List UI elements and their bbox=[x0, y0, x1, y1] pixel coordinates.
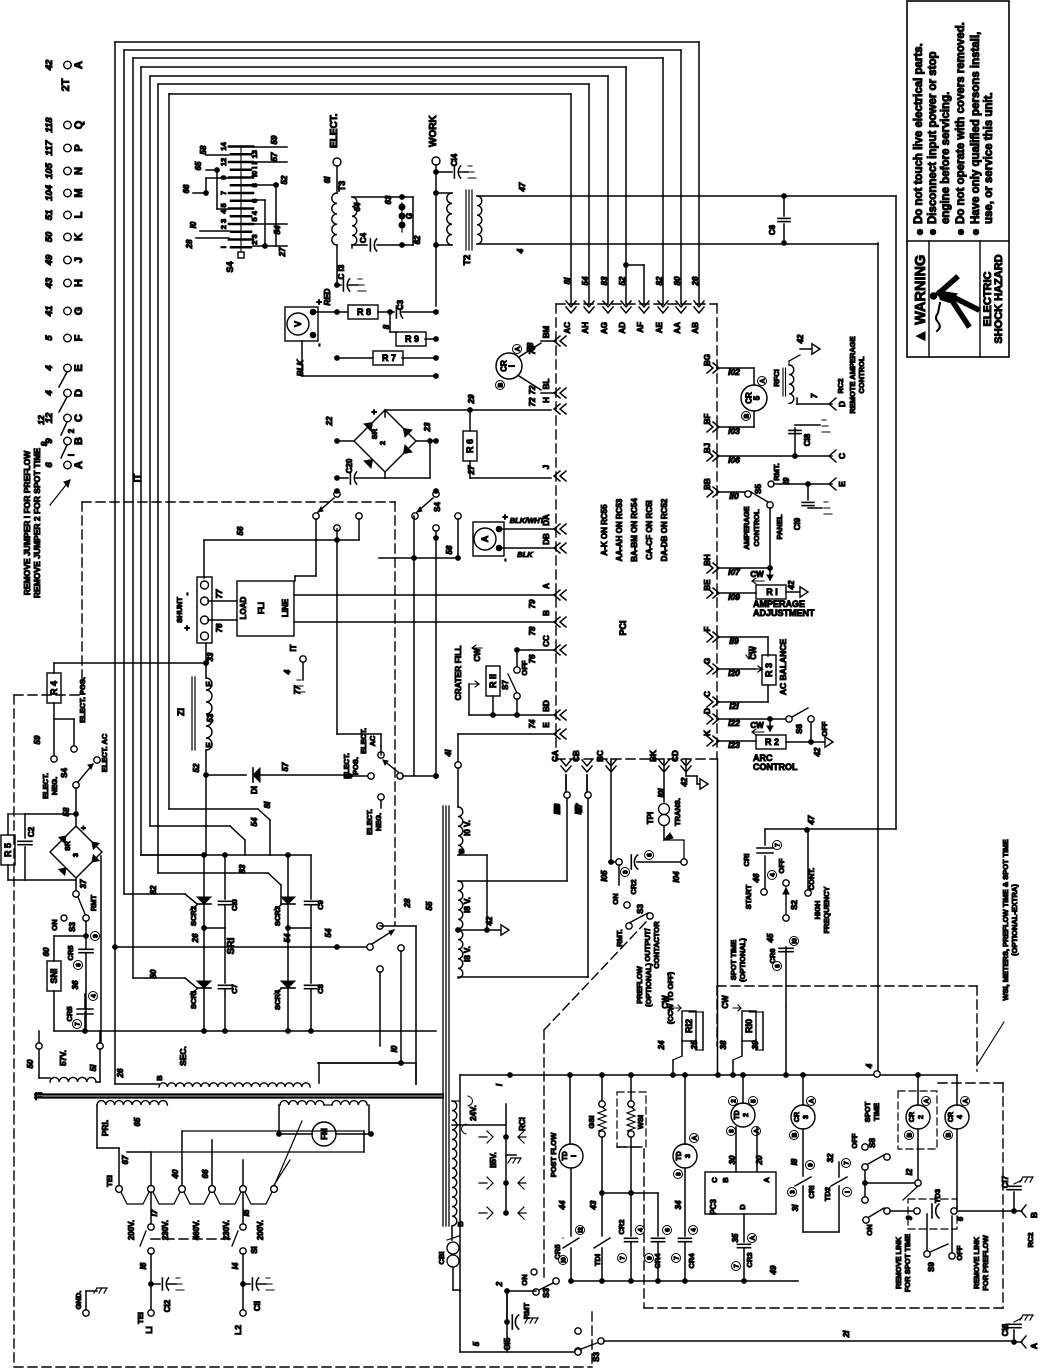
svg-text:L: L bbox=[73, 211, 85, 218]
svg-text:L2: L2 bbox=[233, 1325, 243, 1335]
svg-text:CA: CA bbox=[551, 750, 560, 762]
svg-text:R 3: R 3 bbox=[764, 663, 774, 677]
svg-text:74: 74 bbox=[528, 719, 537, 728]
svg-text:CW: CW bbox=[750, 570, 764, 579]
svg-text:64: 64 bbox=[353, 202, 362, 211]
svg-text:PCI: PCI bbox=[618, 620, 628, 635]
svg-text:B: B bbox=[744, 413, 751, 418]
svg-text:9: 9 bbox=[623, 870, 630, 874]
svg-text:2I: 2I bbox=[842, 1330, 851, 1338]
svg-text:12: 12 bbox=[36, 415, 46, 425]
svg-text:66: 66 bbox=[182, 184, 191, 193]
svg-text:A: A bbox=[73, 461, 85, 469]
svg-text:CONTACTOR: CONTACTOR bbox=[652, 921, 661, 969]
svg-text:6: 6 bbox=[647, 853, 654, 857]
svg-text:52: 52 bbox=[280, 175, 289, 184]
svg-text:54: 54 bbox=[250, 817, 259, 826]
svg-text:65: 65 bbox=[194, 161, 203, 170]
svg-text:(OPTIONAL): (OPTIONAL) bbox=[738, 938, 747, 982]
svg-text:I9: I9 bbox=[782, 477, 791, 484]
svg-text:S7: S7 bbox=[501, 680, 510, 690]
svg-text:T3: T3 bbox=[337, 181, 347, 192]
svg-text:I6: I6 bbox=[139, 1262, 148, 1269]
svg-text:R 2: R 2 bbox=[765, 737, 779, 747]
svg-text:FREQUENCY: FREQUENCY bbox=[822, 886, 831, 933]
svg-text:7: 7 bbox=[810, 393, 819, 398]
svg-text:42: 42 bbox=[680, 777, 689, 787]
svg-text:A: A bbox=[809, 1098, 816, 1103]
svg-text:+: + bbox=[79, 825, 88, 830]
svg-text:62: 62 bbox=[413, 235, 422, 244]
svg-text:I04: I04 bbox=[672, 871, 681, 883]
svg-text:K: K bbox=[73, 233, 85, 241]
svg-text:CR: CR bbox=[948, 1112, 955, 1122]
svg-text:CR5: CR5 bbox=[66, 945, 75, 960]
svg-text:S3: S3 bbox=[68, 922, 77, 932]
svg-text:ELECT.: ELECT. bbox=[359, 728, 368, 754]
svg-text:54: 54 bbox=[273, 225, 282, 234]
svg-text:13: 13 bbox=[250, 150, 259, 158]
svg-text:BD: BD bbox=[542, 700, 551, 712]
svg-text:II5V.: II5V. bbox=[489, 1152, 498, 1168]
svg-text:3: 3 bbox=[803, 1115, 810, 1119]
svg-text:83: 83 bbox=[238, 864, 247, 873]
svg-text:CR: CR bbox=[794, 1112, 801, 1122]
svg-text:I0 V.: I0 V. bbox=[463, 820, 472, 836]
svg-text:5: 5 bbox=[44, 335, 55, 341]
svg-text:LINE: LINE bbox=[281, 598, 290, 617]
svg-text:ON: ON bbox=[611, 893, 620, 904]
svg-text:TD3: TD3 bbox=[933, 1189, 942, 1203]
svg-text:2 3: 2 3 bbox=[219, 219, 228, 229]
svg-text:N: N bbox=[73, 167, 85, 175]
svg-text:REMOVE JUMPER I FOR PREFLOW: REMOVE JUMPER I FOR PREFLOW bbox=[22, 450, 32, 595]
svg-text:PREFLOW: PREFLOW bbox=[635, 965, 644, 1003]
svg-text:E: E bbox=[205, 742, 214, 748]
svg-text:SCR3: SCR3 bbox=[273, 906, 282, 926]
svg-text:200V.: 200V. bbox=[256, 1220, 265, 1240]
svg-text:26: 26 bbox=[191, 933, 200, 943]
svg-text:TD: TD bbox=[676, 1151, 683, 1160]
svg-text:4: 4 bbox=[691, 1228, 698, 1232]
svg-text:S3: S3 bbox=[636, 904, 645, 914]
svg-text:A: A bbox=[760, 378, 767, 383]
svg-text:8I: 8I bbox=[563, 277, 572, 284]
svg-text:TD: TD bbox=[562, 1151, 569, 1160]
svg-text:D: D bbox=[703, 708, 712, 714]
svg-text:I: I bbox=[508, 365, 517, 367]
svg-text:41: 41 bbox=[44, 306, 55, 318]
svg-text:C: C bbox=[703, 691, 712, 697]
svg-text:54: 54 bbox=[324, 928, 333, 937]
svg-text:5I: 5I bbox=[89, 1064, 98, 1071]
svg-text:42: 42 bbox=[813, 747, 822, 757]
svg-text:I: I bbox=[219, 246, 228, 248]
svg-text:C: C bbox=[73, 414, 85, 422]
svg-text:AD: AD bbox=[618, 322, 627, 334]
svg-text:D: D bbox=[837, 401, 847, 407]
svg-text:TD2: TD2 bbox=[823, 1187, 832, 1201]
svg-text:D: D bbox=[73, 389, 85, 397]
svg-text:-: - bbox=[182, 593, 192, 596]
svg-text:TEI: TEI bbox=[105, 1175, 114, 1187]
svg-text:A: A bbox=[73, 61, 85, 69]
svg-text:14: 14 bbox=[219, 142, 228, 151]
svg-text:54: 54 bbox=[581, 276, 590, 285]
svg-text:S4: S4 bbox=[60, 768, 69, 778]
svg-text:4I: 4I bbox=[444, 749, 453, 757]
svg-text:B: B bbox=[73, 437, 85, 445]
svg-text:OFF: OFF bbox=[777, 858, 786, 873]
svg-text:engine before servicing.: engine before servicing. bbox=[940, 92, 952, 224]
svg-text:78: 78 bbox=[528, 626, 537, 635]
svg-text:27: 27 bbox=[467, 465, 476, 475]
svg-text:CI0: CI0 bbox=[230, 899, 239, 911]
svg-text:R 9: R 9 bbox=[405, 334, 419, 344]
svg-text:I0: I0 bbox=[390, 1045, 399, 1052]
svg-text:II8: II8 bbox=[553, 805, 562, 814]
svg-text:ELECT.: ELECT. bbox=[365, 809, 374, 835]
svg-text:43: 43 bbox=[44, 277, 55, 289]
svg-text:I0I: I0I bbox=[657, 788, 666, 798]
svg-text:C2: C2 bbox=[27, 826, 36, 837]
svg-text:CR4: CR4 bbox=[687, 1253, 696, 1269]
svg-text:AC: AC bbox=[368, 735, 377, 746]
svg-text:AMPERAGE: AMPERAGE bbox=[742, 506, 751, 549]
svg-text:8: 8 bbox=[729, 1129, 736, 1133]
svg-text:52: 52 bbox=[192, 763, 201, 772]
svg-text:I0 I I: I0 I I bbox=[250, 162, 259, 177]
svg-text:I4: I4 bbox=[231, 1262, 240, 1269]
svg-text:FOR SPOT TIME: FOR SPOT TIME bbox=[903, 1234, 912, 1292]
svg-text:AE: AE bbox=[655, 321, 664, 333]
svg-text:OFF: OFF bbox=[520, 660, 529, 675]
svg-text:59: 59 bbox=[33, 735, 42, 744]
svg-text:CA-CF ON RC5I: CA-CF ON RC5I bbox=[645, 500, 654, 560]
svg-text:SPOT: SPOT bbox=[863, 1101, 872, 1122]
svg-text:4: 4 bbox=[516, 248, 525, 254]
svg-text:R 6: R 6 bbox=[465, 439, 475, 453]
svg-text:57V.: 57V. bbox=[59, 1050, 68, 1066]
svg-text:4: 4 bbox=[44, 365, 55, 372]
svg-text:2: 2 bbox=[918, 1115, 925, 1119]
svg-text:BLK/WHT: BLK/WHT bbox=[510, 516, 546, 525]
svg-text:SRI: SRI bbox=[226, 937, 237, 954]
svg-text:56: 56 bbox=[445, 545, 454, 554]
svg-text:9: 9 bbox=[905, 1215, 914, 1220]
svg-text:TPI: TPI bbox=[646, 812, 655, 824]
svg-text:M: M bbox=[73, 188, 85, 197]
svg-text:63: 63 bbox=[384, 195, 393, 204]
svg-text:ON: ON bbox=[50, 919, 59, 930]
svg-text:F: F bbox=[703, 626, 712, 631]
svg-text:I2: I2 bbox=[578, 1227, 585, 1233]
svg-text:28: 28 bbox=[185, 239, 194, 249]
svg-text:CW: CW bbox=[721, 995, 730, 1009]
svg-text:82: 82 bbox=[655, 276, 664, 285]
svg-text:H: H bbox=[73, 279, 85, 287]
svg-text:Do not operate with covers rem: Do not operate with covers removed. bbox=[955, 22, 967, 224]
svg-text:WSI, METERS, PREFLOW TIME & SP: WSI, METERS, PREFLOW TIME & SPOT TIME bbox=[1001, 839, 1010, 1000]
svg-text:2 3: 2 3 bbox=[250, 234, 259, 244]
svg-text:G: G bbox=[405, 213, 414, 219]
svg-text:3: 3 bbox=[790, 1190, 797, 1194]
svg-text:J: J bbox=[542, 465, 551, 469]
svg-text:D: D bbox=[738, 1204, 747, 1210]
svg-text:5: 5 bbox=[753, 395, 762, 400]
svg-text:51: 51 bbox=[44, 210, 55, 221]
svg-text:H: H bbox=[542, 397, 551, 403]
svg-text:(CCW TO OFF): (CCW TO OFF) bbox=[666, 971, 675, 1024]
svg-text:60: 60 bbox=[42, 947, 51, 956]
svg-text:C I3: C I3 bbox=[337, 264, 346, 279]
svg-text:OFF: OFF bbox=[955, 1245, 964, 1260]
svg-text:I0: I0 bbox=[561, 1257, 568, 1263]
svg-text:4: 4 bbox=[957, 1115, 964, 1119]
svg-text:4: 4 bbox=[283, 669, 292, 675]
svg-text:22: 22 bbox=[325, 416, 334, 426]
svg-text:REMOVE JUMPER 2 FOR SPOT TIME: REMOVE JUMPER 2 FOR SPOT TIME bbox=[32, 448, 42, 599]
svg-text:WSI: WSI bbox=[636, 1115, 645, 1129]
svg-text:58: 58 bbox=[62, 807, 71, 816]
svg-text:2: 2 bbox=[495, 1281, 504, 1287]
svg-text:200V.: 200V. bbox=[127, 1220, 136, 1240]
svg-text:RI0: RI0 bbox=[744, 1019, 754, 1033]
svg-text:TI: TI bbox=[34, 1092, 44, 1100]
svg-text:BA-BM ON RC54: BA-BM ON RC54 bbox=[630, 498, 639, 562]
svg-text:+: + bbox=[500, 514, 510, 519]
svg-text:DB: DB bbox=[542, 533, 551, 545]
svg-text:CBI: CBI bbox=[437, 1252, 446, 1265]
svg-text:54: 54 bbox=[283, 933, 292, 942]
svg-text:A: A bbox=[480, 535, 490, 542]
svg-text:83: 83 bbox=[600, 276, 609, 285]
svg-text:I: I bbox=[67, 454, 76, 456]
svg-text:AF: AF bbox=[636, 322, 645, 333]
svg-text:9: 9 bbox=[39, 441, 49, 446]
svg-text:AC BALANCE: AC BALANCE bbox=[778, 639, 788, 696]
svg-text:ELECT.: ELECT. bbox=[329, 113, 340, 148]
svg-text:ADJUSTMENT: ADJUSTMENT bbox=[753, 608, 815, 618]
svg-text:80: 80 bbox=[673, 276, 682, 285]
svg-text:RMT.: RMT. bbox=[772, 463, 781, 481]
svg-text:TD: TD bbox=[734, 1110, 741, 1119]
svg-text:77: 77 bbox=[215, 589, 224, 598]
svg-text:42: 42 bbox=[485, 916, 494, 926]
svg-text:BJ: BJ bbox=[703, 443, 712, 453]
svg-text:GND.: GND. bbox=[74, 1291, 83, 1310]
svg-text:I0: I0 bbox=[792, 938, 799, 944]
svg-text:3: 3 bbox=[685, 1154, 692, 1158]
svg-text:REMOTE AMPERAGE: REMOTE AMPERAGE bbox=[848, 336, 857, 413]
svg-text:A: A bbox=[542, 583, 551, 589]
svg-text:I2: I2 bbox=[905, 1168, 914, 1175]
svg-text:SCRI: SCRI bbox=[189, 991, 198, 1009]
svg-text:C9: C9 bbox=[316, 900, 325, 910]
svg-text:use, or service this unit.: use, or service this unit. bbox=[983, 92, 995, 224]
svg-text:CR: CR bbox=[909, 1112, 916, 1122]
svg-text:SCR2: SCR2 bbox=[189, 906, 198, 926]
svg-text:B: B bbox=[907, 1132, 914, 1137]
svg-text:CB: CB bbox=[572, 750, 581, 762]
svg-text:72: 72 bbox=[528, 385, 537, 394]
svg-text:7: 7 bbox=[219, 191, 228, 195]
svg-text:RMT: RMT bbox=[522, 1302, 531, 1319]
svg-text:CI4: CI4 bbox=[450, 153, 459, 166]
svg-text:C8: C8 bbox=[316, 984, 325, 994]
svg-text:33: 33 bbox=[206, 652, 215, 661]
svg-text:B: B bbox=[542, 610, 551, 616]
svg-text:SI: SI bbox=[250, 1246, 259, 1254]
svg-text:R I: R I bbox=[766, 587, 778, 597]
svg-text:SPOT TIME: SPOT TIME bbox=[729, 940, 738, 980]
svg-text:SEC.: SEC. bbox=[178, 1046, 188, 1066]
svg-text:E: E bbox=[73, 364, 85, 371]
svg-text:II7: II7 bbox=[574, 805, 583, 814]
svg-text:9: 9 bbox=[93, 934, 100, 938]
svg-text:57: 57 bbox=[281, 762, 290, 771]
svg-text:BL: BL bbox=[542, 379, 551, 390]
svg-text:230V.: 230V. bbox=[222, 1220, 231, 1240]
svg-text:CI9: CI9 bbox=[793, 517, 802, 530]
svg-text:5 4: 5 4 bbox=[250, 210, 259, 221]
svg-text:9: 9 bbox=[808, 1163, 815, 1167]
svg-text:BH: BH bbox=[703, 554, 712, 566]
svg-text:RFCI: RFCI bbox=[772, 369, 781, 387]
svg-text:23: 23 bbox=[423, 422, 432, 432]
svg-text:44: 44 bbox=[558, 1200, 567, 1210]
svg-text:A: A bbox=[924, 1098, 931, 1103]
svg-text:IT: IT bbox=[289, 644, 298, 651]
svg-text:36: 36 bbox=[71, 980, 80, 989]
svg-text:2: 2 bbox=[67, 428, 76, 433]
svg-text:80: 80 bbox=[149, 969, 158, 978]
svg-text:DA-DB ON RC52: DA-DB ON RC52 bbox=[660, 498, 669, 561]
svg-text:24V.: 24V. bbox=[469, 1105, 478, 1121]
svg-text:R II: R II bbox=[488, 674, 498, 688]
svg-text:SCR4: SCR4 bbox=[273, 989, 282, 1010]
svg-text:-: - bbox=[500, 559, 510, 562]
svg-text:RC2: RC2 bbox=[1026, 1232, 1035, 1247]
svg-text:I0: I0 bbox=[189, 221, 198, 228]
svg-text:28: 28 bbox=[403, 898, 412, 908]
svg-text:AB: AB bbox=[691, 322, 700, 334]
svg-text:38: 38 bbox=[719, 1040, 728, 1049]
svg-text:Do not touch live electrical p: Do not touch live electrical parts. bbox=[913, 43, 925, 224]
svg-text:C4: C4 bbox=[359, 232, 368, 243]
svg-text:RCI: RCI bbox=[518, 1117, 527, 1131]
svg-text:E: E bbox=[542, 722, 551, 728]
svg-text:4: 4 bbox=[865, 1063, 874, 1069]
svg-text:NEG.: NEG. bbox=[50, 777, 59, 795]
svg-text:FOR PREFLOW: FOR PREFLOW bbox=[981, 1234, 990, 1290]
svg-text:5: 5 bbox=[751, 1099, 758, 1103]
svg-text:8I: 8I bbox=[263, 801, 272, 808]
svg-text:AG: AG bbox=[600, 322, 609, 334]
svg-text:S3: S3 bbox=[592, 1352, 601, 1362]
svg-text:76: 76 bbox=[215, 623, 224, 632]
svg-text:S3: S3 bbox=[542, 1288, 551, 1298]
svg-text:B: B bbox=[457, 848, 466, 854]
svg-text:CRI: CRI bbox=[807, 1186, 816, 1199]
svg-text:5: 5 bbox=[472, 1341, 481, 1346]
svg-text:C7: C7 bbox=[230, 984, 239, 994]
svg-text:Have only qualified persons in: Have only qualified persons install, bbox=[970, 32, 982, 224]
svg-text:RC2: RC2 bbox=[836, 378, 845, 393]
svg-text:DI: DI bbox=[250, 786, 259, 794]
svg-text:A-K ON RC55: A-K ON RC55 bbox=[600, 504, 609, 556]
svg-text:SHUNT: SHUNT bbox=[175, 597, 184, 623]
svg-text:TEI: TEI bbox=[136, 1312, 145, 1324]
svg-text:CW: CW bbox=[750, 721, 764, 730]
svg-text:AC: AC bbox=[563, 322, 572, 334]
svg-text:IT: IT bbox=[132, 474, 143, 483]
svg-text:50: 50 bbox=[26, 1059, 35, 1068]
svg-text:TRANS.: TRANS. bbox=[673, 798, 682, 826]
svg-text:42: 42 bbox=[796, 334, 805, 344]
svg-text:RMT.: RMT. bbox=[615, 929, 624, 947]
svg-text:S6: S6 bbox=[795, 724, 804, 734]
svg-text:OFF: OFF bbox=[820, 721, 829, 736]
svg-text:29: 29 bbox=[467, 394, 476, 404]
svg-text:59: 59 bbox=[270, 135, 279, 144]
svg-text:ON: ON bbox=[520, 1274, 529, 1285]
svg-text:B: B bbox=[498, 382, 505, 387]
svg-text:460V.: 460V. bbox=[192, 1220, 201, 1240]
svg-text:LOAD: LOAD bbox=[239, 596, 248, 619]
svg-text:CII: CII bbox=[253, 1301, 262, 1311]
svg-text:START: START bbox=[744, 884, 753, 909]
svg-text:73: 73 bbox=[526, 342, 535, 351]
svg-text:42: 42 bbox=[787, 580, 796, 590]
svg-text:TIME: TIME bbox=[872, 1103, 881, 1121]
svg-text:45: 45 bbox=[766, 933, 775, 943]
svg-text:BF: BF bbox=[703, 414, 712, 425]
svg-text:ZI: ZI bbox=[176, 708, 186, 716]
svg-text:SNI: SNI bbox=[49, 968, 59, 983]
svg-text:AA-AH ON RC53: AA-AH ON RC53 bbox=[615, 498, 624, 561]
svg-text:I05: I05 bbox=[600, 870, 609, 882]
svg-text:ON: ON bbox=[865, 1224, 874, 1235]
svg-text:49: 49 bbox=[44, 254, 55, 266]
svg-text:REMOVE LINK: REMOVE LINK bbox=[972, 1236, 981, 1289]
svg-text:CR3: CR3 bbox=[745, 1252, 754, 1267]
svg-text:53: 53 bbox=[206, 713, 215, 722]
svg-text:RMT: RMT bbox=[89, 894, 98, 911]
svg-text:S5: S5 bbox=[754, 484, 763, 494]
svg-text:J: J bbox=[73, 257, 85, 263]
svg-text:+: + bbox=[182, 625, 192, 630]
svg-text:CONTROL: CONTROL bbox=[752, 509, 761, 546]
svg-text:PANEL: PANEL bbox=[775, 514, 784, 539]
svg-text:NEG.: NEG. bbox=[374, 813, 383, 831]
svg-text:BB: BB bbox=[703, 478, 712, 490]
svg-text:56: 56 bbox=[236, 526, 245, 535]
svg-text:I8 V.: I8 V. bbox=[463, 897, 472, 913]
svg-text:R 8: R 8 bbox=[357, 307, 371, 317]
svg-text:B: B bbox=[792, 1132, 799, 1137]
svg-text:CI8: CI8 bbox=[803, 433, 812, 446]
svg-text:I8: I8 bbox=[790, 1158, 799, 1165]
svg-text:BLK: BLK bbox=[296, 359, 305, 377]
svg-text:A: A bbox=[692, 1135, 699, 1140]
svg-text:26: 26 bbox=[691, 276, 700, 286]
svg-text:POST FLOW: POST FLOW bbox=[549, 1132, 558, 1178]
svg-text:105: 105 bbox=[44, 162, 55, 179]
svg-text:2T: 2T bbox=[60, 78, 72, 91]
svg-text:7: 7 bbox=[75, 1022, 82, 1026]
svg-text:A: A bbox=[515, 346, 522, 351]
